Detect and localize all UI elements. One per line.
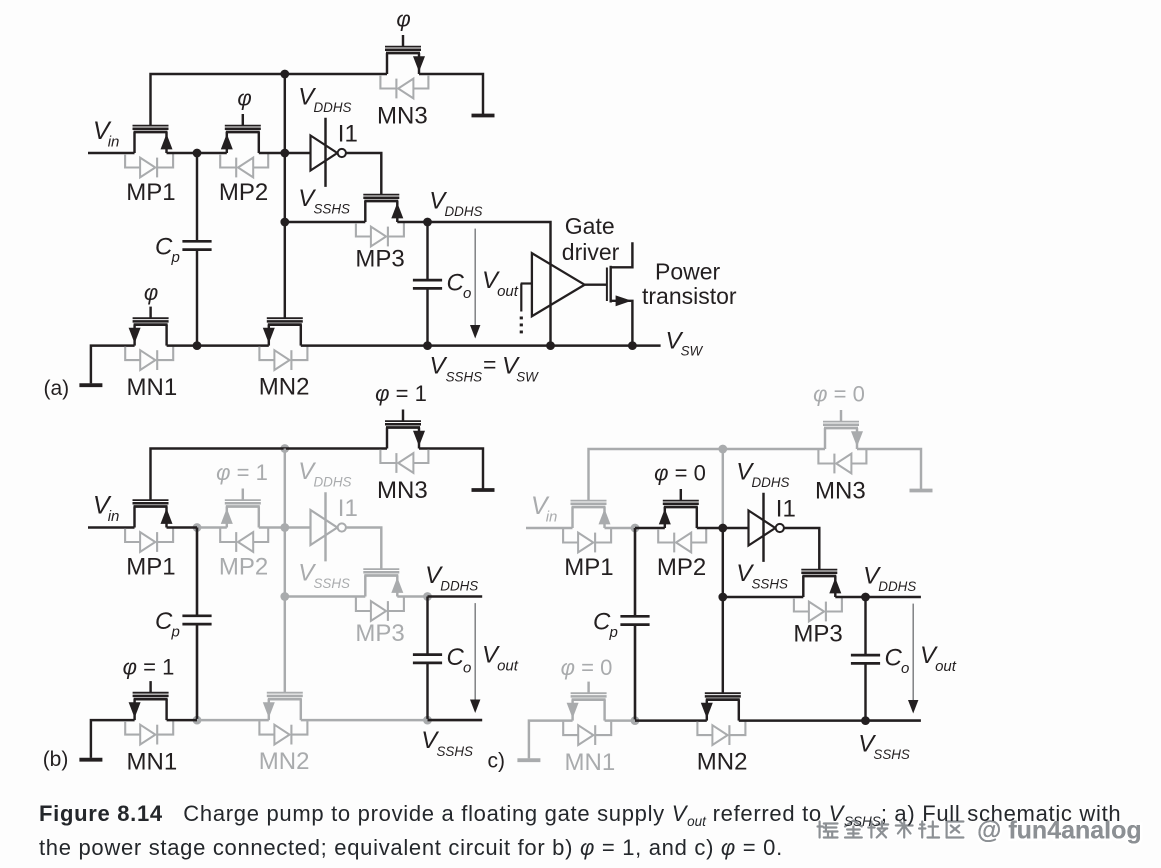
wire MP1 drain to Cp corner (fig c) [605, 527, 636, 530]
wire ground stub to MN1 source (fig a) [91, 346, 135, 384]
body diode of MP1 (fig a) [125, 154, 173, 177]
svg-text:DDHS: DDHS [440, 579, 478, 594]
transistor MP3 (fig c) [794, 570, 842, 622]
inverter I1 (fig c) [749, 493, 784, 562]
body diode of MN1 (fig b) [125, 721, 173, 744]
Vout arrow (fig b) [470, 603, 480, 713]
body diode of MN1 (fig c) [563, 722, 611, 745]
svg-text:MN1: MN1 [565, 749, 616, 776]
transistor MN1 (fig b) [125, 681, 173, 744]
MN2 (fig a) gate lead [284, 317, 286, 319]
wire top rail / MP1 gate (fig b) [151, 449, 388, 501]
wire node to MP3 source (fig a) [285, 221, 366, 223]
wire middle vertical lower (I1 input to MN2 gate) (fig c) [722, 528, 724, 693]
MN2 (fig b) source/drain legs [269, 699, 301, 720]
capacitor Co (fig a) [413, 280, 442, 288]
wire I1 output to MP3 gate (fig a) [346, 153, 381, 195]
label MN1 (fig b) [127, 749, 178, 776]
wire Vin (fig b) [88, 526, 135, 528]
wire Cp top (fig b) [196, 528, 199, 615]
wire MP3 drain to VDDHS node (fig a) [397, 221, 427, 223]
wire MN1 drain to Cp node (fig c) [605, 719, 635, 721]
svg-text:φ = 1: φ = 1 [375, 381, 427, 406]
node Cp bottom / rail (fig a) [193, 341, 202, 350]
wire MN1 drain to Cp node (fig b) [167, 719, 197, 721]
MP3 (fig c) gate lead [818, 568, 820, 570]
MN1 (fig a) gate lead [149, 307, 151, 319]
MN2 (fig a) arrow [263, 328, 275, 344]
svg-text:out: out [497, 283, 519, 300]
wire MP3 drain to VDDHS node (fig b) [397, 595, 427, 597]
node gray: rail/middle (fig b) [280, 444, 289, 453]
label (a) [44, 377, 70, 400]
MP2 (fig c) channel bar [664, 506, 698, 509]
body diode of MN3 (fig c) [818, 450, 866, 473]
svg-text:C: C [593, 609, 611, 636]
node gray: MP1 drain (fig b) [193, 523, 202, 532]
MN1 (fig a) arrow [129, 328, 141, 344]
MP1 (fig a) source/drain legs [135, 132, 167, 153]
MN3 (fig b) gate bars [385, 421, 421, 424]
svg-text:(b): (b) [43, 748, 69, 771]
MP3 (fig b) gate bars [363, 569, 399, 572]
transistor MP2 (fig c) [658, 489, 706, 552]
wire Cp node to MN2 source (fig a) [197, 344, 269, 346]
wire node to MP3 source (fig c) [723, 596, 804, 598]
wire MN3 drain to ground (fig a) [419, 74, 483, 114]
transistor MN2 (fig b) [259, 693, 307, 745]
wire Cp node to MN2 source (fig b) [197, 719, 269, 721]
MN3 (fig b) source/drain legs [387, 428, 419, 449]
MN1 (fig b) channel bar [134, 698, 168, 701]
svg-text:SSHS: SSHS [437, 744, 474, 759]
wire top rail / MP1 gate (fig c) [589, 449, 826, 501]
transistor MP1 (fig b) [125, 500, 173, 552]
MN2 (fig c) source/drain legs [707, 700, 739, 721]
MN3 (fig b) gate lead [402, 410, 404, 422]
MN1 (fig b) source/drain legs [135, 699, 167, 720]
svg-text:φ = 1: φ = 1 [216, 460, 268, 485]
power transistor symbol (fig a) [607, 242, 633, 345]
label MP1 (fig c) [564, 554, 613, 581]
MN3 (fig a) arrow [413, 56, 425, 72]
gate label phi MN1 (fig a) [144, 280, 158, 305]
wire MN2 drain to VSSHS node (fig a) [301, 344, 428, 346]
node gray: Cp bottom (fig c) [631, 716, 640, 725]
svg-text:I1: I1 [338, 495, 358, 522]
MP1 (fig a) channel bar [134, 131, 168, 134]
MN1 (fig b) gate bars [133, 693, 169, 696]
transistor MN3 (fig b) [380, 410, 428, 473]
ground (top right) (fig c) [910, 489, 933, 493]
MN2 (fig a) gate bars [267, 318, 303, 321]
svg-text:MP3: MP3 [793, 620, 842, 647]
svg-text:C: C [447, 644, 465, 671]
transistor MP3 (fig a) [356, 195, 404, 247]
gate label phi MN3 (fig a) [396, 7, 410, 32]
svg-text:=: = [483, 351, 496, 377]
svg-text:p: p [171, 624, 180, 641]
svg-text:MN3: MN3 [815, 478, 866, 505]
node gray: Cp bottom (fig b) [193, 716, 202, 725]
MP2 (fig b) arrow [221, 508, 233, 524]
body diode of MN3 (fig a) [380, 75, 428, 98]
Vout arrow (fig c) [908, 604, 918, 714]
node VDDHS (fig c) [861, 593, 870, 602]
wire MP3 drain to VDDHS node (fig c) [835, 596, 865, 598]
wire Co top (fig b) [426, 597, 428, 654]
MN1 (fig b) arrow [129, 702, 141, 718]
label VSSHS (inverter supply) (fig b) [298, 559, 350, 591]
label MP2 (fig b) [219, 554, 268, 581]
MN1 (fig b) gate lead [149, 681, 151, 693]
wire Co bottom (fig c) [864, 664, 866, 720]
wire I1 output to MP3 gate (fig c) [784, 528, 819, 570]
gate driver input stub with dotted line (fig a) [521, 284, 532, 338]
wire Cp top (fig a) [196, 153, 198, 240]
MN3 (fig c) channel bar [824, 427, 858, 430]
MP3 (fig a) gate lead [380, 193, 382, 195]
svg-text:Gate: Gate [565, 213, 615, 239]
label Co (fig a) [447, 270, 472, 303]
MP2 (fig b) source/drain legs [227, 507, 259, 528]
MN3 (fig c) gate lead [840, 410, 842, 422]
MN2 (fig c) gate bars [705, 693, 741, 696]
svg-text:transistor: transistor [642, 283, 737, 309]
MP3 (fig b) source/drain legs [365, 576, 397, 597]
inverter I1 (fig b) [311, 492, 346, 561]
label MN2 (fig a) [259, 374, 310, 401]
label Cp (fig c) [593, 609, 618, 642]
svg-text:MP1: MP1 [564, 554, 613, 581]
svg-text:MP3: MP3 [355, 245, 404, 272]
MP3 (fig c) arrow [829, 578, 841, 594]
svg-text:o: o [463, 660, 471, 677]
node MP2 drain / I1 input (fig c) [718, 524, 727, 533]
label MP2 (fig c) [657, 554, 706, 581]
svg-text:DDHS: DDHS [314, 100, 352, 115]
label Vout (fig b) [482, 642, 519, 675]
MP3 (fig a) arrow [391, 203, 403, 219]
svg-text:DDHS: DDHS [445, 204, 483, 219]
MN3 (fig a) gate lead [402, 35, 404, 47]
svg-text:in: in [108, 133, 120, 150]
MN1 (fig c) arrow [567, 703, 579, 719]
wire middle vertical upper (top rail to I1 input) (fig c) [722, 449, 724, 528]
transistor MP1 (fig c) [563, 501, 611, 553]
svg-text:φ: φ [144, 280, 158, 305]
MN3 (fig a) channel bar [386, 52, 420, 55]
label I1 (fig c) [776, 496, 796, 523]
wire Co bottom (fig b) [426, 664, 428, 720]
svg-text:φ = 1: φ = 1 [123, 654, 175, 679]
svg-text:MP2: MP2 [219, 554, 268, 581]
MP2 (fig a) gate bars [225, 126, 261, 129]
wire Cp bottom (fig b) [196, 625, 199, 720]
MP3 (fig b) gate lead [380, 568, 382, 570]
body diode of MN2 (fig a) [259, 347, 307, 370]
MN2 (fig b) arrow [263, 702, 275, 718]
MN1 (fig c) gate bars [571, 693, 607, 696]
svg-text:p: p [171, 249, 180, 266]
svg-text:DDHS: DDHS [878, 579, 916, 594]
capacitor Co (fig c) [851, 655, 880, 663]
gate label phi MP2 (fig b) [216, 460, 268, 485]
svg-text:MN3: MN3 [377, 477, 428, 504]
MP1 (fig b) arrow [161, 508, 173, 524]
MN2 (fig c) arrow [701, 703, 713, 719]
MP3 (fig a) source/drain legs [365, 201, 397, 222]
node gray: middle/MP3 (fig b) [280, 592, 289, 601]
transistor MN3 (fig c) [818, 410, 866, 473]
svg-text:in: in [546, 508, 558, 525]
svg-text:φ: φ [396, 7, 410, 32]
MP3 (fig b) arrow [391, 577, 403, 593]
label MP1 (fig a) [126, 179, 175, 206]
node power transistor source / rail (fig a) [628, 341, 637, 350]
label MP3 (fig b) [355, 620, 404, 647]
wire middle vertical upper (top rail to I1 input) (fig a) [284, 74, 286, 153]
label MP3 (fig c) [793, 620, 842, 647]
capacitor Cp (fig a) [182, 241, 211, 249]
svg-text:I1: I1 [338, 121, 358, 148]
label MP2 (fig a) [219, 179, 268, 206]
label MN3 (fig b) [377, 477, 428, 504]
svg-text:SSHS: SSHS [873, 747, 910, 762]
MN2 (fig b) channel bar [268, 698, 302, 701]
body diode of MP3 (fig c) [794, 598, 842, 621]
capacitor Cp (fig b) [182, 616, 211, 624]
label VDDHS node (fig c) [863, 563, 916, 595]
node gray: MP1 drain (fig c) [631, 524, 640, 533]
caption text [39, 801, 1161, 861]
label VDDHS (inverter supply) (fig b) [298, 458, 351, 490]
MN2 (fig c) gate lead [722, 692, 724, 694]
label MP3 (fig a) [355, 245, 404, 272]
label Gate driver (fig a) [562, 213, 620, 265]
MP1 (fig a) gate lead [149, 124, 151, 126]
body diode of MP2 (fig a) [220, 154, 268, 177]
MP2 (fig a) channel bar [226, 131, 260, 134]
node gray: VDDHS (fig b) [423, 592, 432, 601]
MP2 (fig b) gate lead [242, 489, 244, 501]
svg-text:MN1: MN1 [127, 749, 178, 776]
wire VDDHS stub (fig b) [428, 595, 483, 598]
MN1 (fig c) gate lead [587, 682, 589, 694]
wire VDDHS to gate driver supply (fig a) [428, 222, 551, 346]
node VDDHS (fig a) [423, 218, 432, 227]
MP3 (fig c) gate bars [801, 570, 837, 573]
label VSSHS node (fig b) [421, 727, 473, 759]
MP3 (fig a) channel bar [364, 200, 398, 203]
MP3 (fig b) channel bar [364, 574, 398, 577]
wire top rail / MP1 gate (fig a) [151, 74, 388, 126]
wire node to MP3 source (fig b) [285, 595, 366, 597]
wire Vin (fig a) [88, 152, 135, 154]
label Vin (fig c) [531, 492, 557, 525]
MN1 (fig a) source/drain legs [135, 325, 167, 346]
capacitor Co (fig b) [413, 655, 442, 663]
node gate driver supply / rail (fig a) [546, 341, 555, 350]
svg-text:DDHS: DDHS [752, 475, 790, 490]
inverter I1 (fig a) [311, 118, 346, 187]
svg-text:SSHS: SSHS [752, 576, 789, 591]
wire I1 output to MP3 gate (fig b) [346, 528, 381, 570]
svg-text:out: out [935, 658, 957, 675]
body diode of MP1 (fig b) [125, 529, 173, 552]
MN2 (fig c) channel bar [706, 698, 740, 701]
label MN2 (fig c) [697, 749, 748, 776]
transistor MN3 (fig a) [380, 35, 428, 98]
svg-text:DDHS: DDHS [314, 475, 352, 490]
MP1 (fig c) arrow [599, 509, 611, 525]
MN3 (fig a) gate bars [385, 47, 421, 50]
MP3 (fig c) channel bar [802, 575, 836, 578]
svg-text:driver: driver [562, 239, 620, 265]
MN1 (fig c) source/drain legs [573, 700, 605, 721]
wire gate driver output to power transistor gate (fig a) [585, 283, 606, 285]
label VDDHS (inverter supply) (fig a) [298, 84, 351, 116]
MP2 (fig b) channel bar [226, 505, 260, 508]
wire Cp corner to MP2 source (fig c) [635, 527, 665, 529]
ground (top right) (fig b) [472, 488, 495, 492]
svg-text:MP2: MP2 [219, 179, 268, 206]
svg-text:Power: Power [655, 259, 721, 285]
MN1 (fig c) channel bar [572, 698, 606, 701]
svg-text:MP1: MP1 [126, 554, 175, 581]
body diode of MN3 (fig b) [380, 450, 428, 473]
wire Cp bottom (fig a) [196, 251, 198, 346]
gate label phi MN1 (fig c) [561, 655, 613, 680]
wire MP2 drain to inverter I1 input (fig c) [697, 527, 749, 529]
wire MP2 drain to inverter I1 input (fig b) [259, 526, 311, 528]
transistor MP2 (fig b) [220, 489, 268, 552]
gate driver amplifier triangle (fig a) [532, 253, 585, 316]
svg-text:SSHS: SSHS [314, 576, 351, 591]
node top rail / middle line junction (fig a) [280, 70, 289, 79]
label VSSHS = VSW (fig a) [430, 351, 540, 384]
transistor MP2 (fig a) [220, 114, 268, 177]
body diode of MP1 (fig c) [563, 529, 611, 552]
body diode of MN2 (fig b) [259, 721, 307, 744]
MN2 (fig a) channel bar [268, 323, 302, 326]
svg-text:SSHS: SSHS [446, 370, 483, 385]
wire MN2 drain to VSSHS node (fig b) [301, 719, 428, 721]
MN1 (fig a) channel bar [134, 323, 168, 326]
node VSSHS Co bottom (fig a) [423, 341, 432, 350]
Vout arrow (fig a) [470, 229, 480, 339]
label VSW at rail end (fig a) [666, 327, 704, 358]
MP1 (fig b) channel bar [134, 505, 168, 508]
label MN1 (fig c) [565, 749, 616, 776]
label Vin (fig a) [93, 117, 119, 150]
wire middle vertical lower (I1 input to MN2 gate) (fig b) [284, 528, 286, 693]
label VSSHS (inverter supply) (fig a) [298, 185, 350, 217]
body diode of MP2 (fig c) [658, 529, 706, 552]
label MN1 (fig a) [127, 374, 178, 401]
MP2 (fig a) source/drain legs [227, 132, 259, 153]
watermark: juejin community @ fun4analog [818, 817, 1142, 845]
MP1 (fig c) channel bar [572, 506, 606, 509]
svg-text:MN2: MN2 [259, 374, 310, 401]
wire MP2 drain to inverter I1 input (fig a) [259, 152, 311, 154]
wire Vin (fig c) [526, 527, 573, 529]
wire MP1 drain to MP2 source (fig a) [167, 152, 227, 154]
MP3 (fig a) gate bars [363, 195, 399, 198]
MP3 (fig c) source/drain legs [803, 576, 835, 597]
gate label phi MN3 (fig b) [375, 381, 427, 406]
svg-text:φ = 0: φ = 0 [561, 655, 613, 680]
gate label phi MP2 (fig a) [237, 86, 251, 111]
MP1 (fig a) gate bars [133, 126, 169, 129]
MP2 (fig c) gate lead [680, 489, 682, 501]
wire Cp top (fig c) [634, 528, 637, 615]
svg-text:o: o [901, 660, 909, 677]
MN3 (fig b) arrow [413, 431, 425, 447]
wire VSSHS stub (fig c) [866, 719, 921, 722]
body diode of MN2 (fig c) [697, 722, 745, 745]
label MN3 (fig a) [377, 103, 428, 130]
label Power transistor (fig a) [642, 259, 737, 310]
svg-text:I1: I1 [776, 496, 796, 523]
gate label phi MN3 (fig c) [813, 382, 865, 407]
wire middle vertical lower (I1 input to MN2 gate) (fig a) [284, 153, 286, 318]
MP1 (fig b) gate bars [133, 500, 169, 503]
node MP2 drain / I1 input (fig a) [280, 149, 289, 158]
MN2 (fig b) gate bars [267, 693, 303, 696]
svg-text:MP2: MP2 [657, 554, 706, 581]
ground (bottom left) (fig c) [517, 758, 540, 762]
wire MN1 drain to Cp node (fig a) [167, 344, 197, 346]
capacitor Cp (fig c) [620, 616, 649, 624]
MP1 (fig c) source/drain legs [573, 507, 605, 528]
label Cp (fig b) [155, 608, 180, 641]
svg-text:MP1: MP1 [126, 179, 175, 206]
MP2 (fig c) arrow [659, 509, 671, 525]
gate label phi MP2 (fig c) [654, 461, 706, 486]
label Co (fig c) [885, 645, 910, 678]
wire MP1 drain to Cp corner (fig b) [167, 526, 198, 529]
wire VSSHS stub (fig b) [428, 719, 483, 722]
transistor MN2 (fig c) [697, 693, 745, 745]
label (b) [43, 748, 69, 771]
label MP1 (fig b) [126, 554, 175, 581]
wire MN2 drain to VSSHS node (fig c) [739, 719, 866, 721]
MP1 (fig c) gate lead [587, 499, 589, 501]
svg-text:MP3: MP3 [355, 620, 404, 647]
wire Co top (fig a) [426, 222, 428, 279]
MP1 (fig c) gate bars [571, 501, 607, 504]
node VSSHS (fig c) [861, 716, 870, 725]
label MN2 (fig b) [259, 748, 310, 775]
MP2 (fig a) gate lead [242, 114, 244, 126]
MN1 (fig a) gate bars [133, 318, 169, 321]
wire MN3 drain to ground (fig b) [419, 449, 483, 489]
gate label phi MN1 (fig b) [123, 654, 175, 679]
svg-text:φ: φ [237, 86, 251, 111]
label VSSHS (inverter supply) (fig c) [736, 560, 788, 592]
svg-text:SSHS: SSHS [314, 201, 351, 216]
body diode of MP2 (fig b) [220, 529, 268, 552]
svg-text:C: C [155, 234, 173, 261]
svg-text:MN3: MN3 [377, 103, 428, 130]
wire Cp bottom (fig c) [634, 626, 637, 721]
svg-text:MN2: MN2 [259, 748, 310, 775]
transistor MP3 (fig b) [356, 569, 404, 621]
MN3 (fig a) source/drain legs [387, 53, 419, 74]
node middle line / MP3 wire (fig a) [280, 218, 289, 227]
svg-text:φ = 0: φ = 0 [813, 382, 865, 407]
